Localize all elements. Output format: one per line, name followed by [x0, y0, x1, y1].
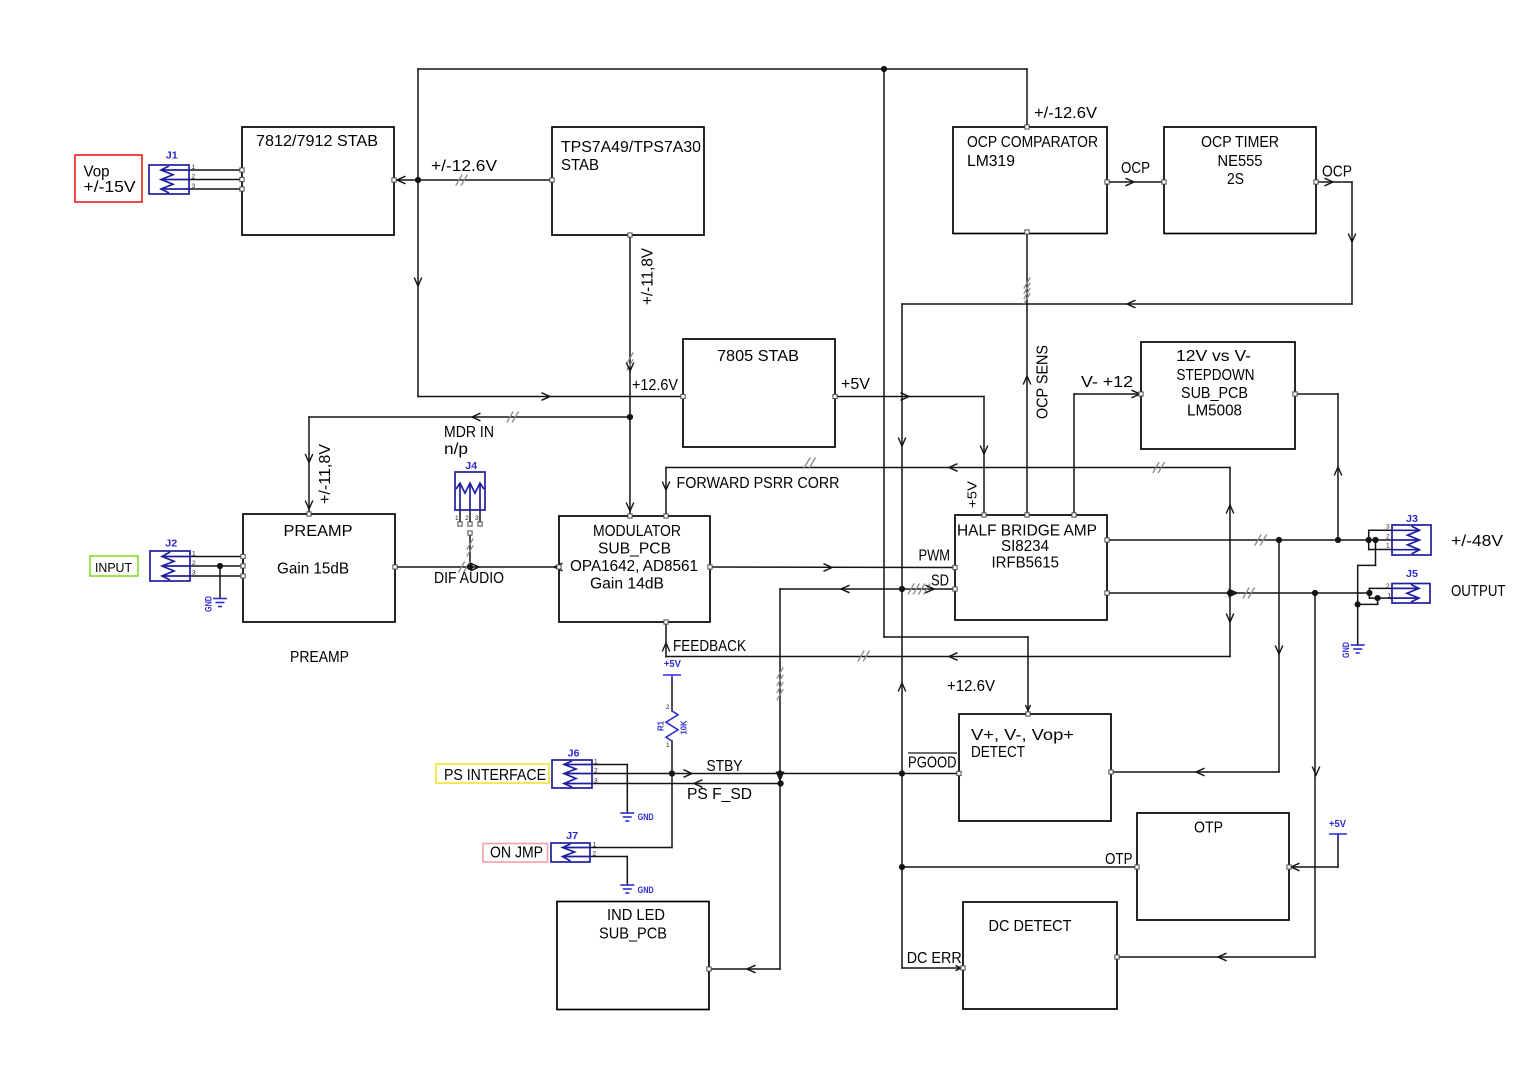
svg-text:MODULATOR: MODULATOR [593, 523, 681, 540]
svg-text:+/-15V: +/-15V [84, 179, 137, 196]
svg-text:INPUT: INPUT [95, 560, 132, 575]
svg-text:OPA1642, AD8561: OPA1642, AD8561 [570, 558, 698, 575]
svg-text:R1: R1 [657, 720, 666, 731]
svg-text:12V vs V-: 12V vs V- [1176, 348, 1251, 365]
svg-text:OCP: OCP [1121, 160, 1150, 177]
svg-text:+5V: +5V [1329, 819, 1346, 830]
svg-text:2: 2 [465, 515, 469, 522]
svg-text:1: 1 [455, 515, 459, 522]
svg-text:DETECT: DETECT [971, 744, 1025, 761]
svg-text:2: 2 [1386, 583, 1390, 590]
svg-text:+/-48V: +/-48V [1451, 533, 1504, 550]
svg-text:MDR IN: MDR IN [444, 424, 494, 441]
svg-text:+5V: +5V [965, 481, 980, 508]
svg-text:V+, V-, Vop+: V+, V-, Vop+ [971, 727, 1074, 744]
svg-text:LM319: LM319 [967, 153, 1015, 170]
svg-text:+/-11,8V: +/-11,8V [317, 444, 334, 504]
svg-text:1: 1 [1388, 592, 1392, 599]
svg-text:J4: J4 [465, 461, 477, 472]
svg-text:OTP: OTP [1105, 851, 1133, 868]
svg-text:GND: GND [638, 885, 654, 895]
svg-text:+/-12.6V: +/-12.6V [1034, 105, 1097, 122]
svg-text:SUB_PCB: SUB_PCB [598, 541, 671, 558]
svg-text:PREAMP: PREAMP [290, 649, 349, 666]
svg-text:2S: 2S [1227, 171, 1244, 188]
svg-text:Gain 14dB: Gain 14dB [590, 576, 664, 593]
svg-text:7805 STAB: 7805 STAB [717, 348, 799, 365]
svg-text:V- +12: V- +12 [1081, 374, 1133, 391]
svg-text:2: 2 [192, 174, 196, 181]
svg-text:LM5008: LM5008 [1187, 403, 1242, 420]
svg-text:TPS7A49/TPS7A30: TPS7A49/TPS7A30 [561, 139, 701, 156]
svg-text:STBY: STBY [707, 758, 743, 775]
svg-text:SD: SD [931, 573, 949, 590]
svg-text:ON JMP: ON JMP [490, 845, 543, 862]
svg-text:1: 1 [594, 759, 598, 766]
svg-text:+5V: +5V [841, 376, 870, 393]
svg-text:OCP: OCP [1322, 164, 1352, 181]
svg-text:J2: J2 [165, 539, 177, 550]
svg-text:GND: GND [204, 596, 214, 612]
svg-text:2: 2 [593, 851, 597, 858]
svg-text:FEEDBACK: FEEDBACK [673, 638, 746, 655]
svg-text:2: 2 [192, 560, 196, 567]
svg-text:PS F_SD: PS F_SD [687, 786, 752, 803]
svg-text:STAB: STAB [561, 157, 599, 174]
svg-text:J3: J3 [1406, 514, 1418, 525]
svg-text:SI8234: SI8234 [1001, 538, 1049, 555]
svg-text:SUB_PCB: SUB_PCB [1181, 385, 1248, 402]
svg-text:PGOOD: PGOOD [908, 755, 957, 772]
svg-text:DC DETECT: DC DETECT [989, 918, 1072, 935]
svg-text:PREAMP: PREAMP [284, 523, 353, 540]
svg-text:1: 1 [192, 164, 196, 171]
svg-text:3: 3 [192, 570, 196, 577]
svg-text:IRFB5615: IRFB5615 [992, 555, 1060, 572]
svg-text:GND: GND [1341, 642, 1351, 658]
svg-text:FORWARD PSRR CORR: FORWARD PSRR CORR [677, 475, 840, 492]
svg-text:HALF BRIDGE AMP: HALF BRIDGE AMP [957, 523, 1097, 540]
svg-text:+/-11,8V: +/-11,8V [640, 248, 657, 305]
svg-text:+/-12.6V: +/-12.6V [431, 158, 498, 175]
svg-text:J6: J6 [568, 748, 580, 759]
svg-text:n/p: n/p [444, 441, 468, 458]
svg-text:GND: GND [638, 812, 654, 822]
svg-text:3: 3 [192, 183, 196, 190]
svg-text:OUTPUT: OUTPUT [1451, 583, 1506, 600]
svg-text:2: 2 [1386, 533, 1390, 540]
svg-text:NE555: NE555 [1218, 153, 1263, 170]
svg-text:1: 1 [666, 742, 670, 749]
svg-text:+12.6V: +12.6V [632, 377, 678, 394]
svg-text:OCP SENS: OCP SENS [1035, 345, 1052, 419]
svg-text:7812/7912 STAB: 7812/7912 STAB [256, 133, 378, 150]
svg-text:10K: 10K [680, 720, 689, 734]
svg-text:J1: J1 [166, 151, 178, 162]
svg-text:3: 3 [1386, 524, 1390, 531]
svg-text:+12.6V: +12.6V [947, 678, 995, 695]
svg-text:3: 3 [475, 515, 479, 522]
svg-text:2: 2 [666, 704, 670, 711]
svg-text:3: 3 [594, 778, 598, 785]
svg-text:PWM: PWM [919, 548, 951, 565]
svg-text:OCP COMPARATOR: OCP COMPARATOR [967, 134, 1098, 151]
svg-text:J5: J5 [1406, 569, 1418, 580]
svg-text:OCP TIMER: OCP TIMER [1201, 134, 1279, 151]
svg-text:IND LED: IND LED [607, 907, 665, 924]
svg-text:PS INTERFACE: PS INTERFACE [444, 767, 546, 784]
svg-text:Vop: Vop [84, 164, 110, 181]
svg-text:J7: J7 [566, 831, 578, 842]
svg-text:DC ERR: DC ERR [907, 950, 962, 967]
svg-text:1: 1 [1386, 542, 1390, 549]
svg-text:SUB_PCB: SUB_PCB [599, 926, 667, 943]
svg-text:OTP: OTP [1194, 820, 1223, 837]
svg-text:1: 1 [593, 842, 597, 849]
svg-text:STEPDOWN: STEPDOWN [1177, 367, 1255, 384]
svg-text:1: 1 [192, 551, 196, 558]
svg-text:DIF AUDIO: DIF AUDIO [434, 570, 504, 587]
svg-text:2: 2 [594, 768, 598, 775]
svg-text:Gain 15dB: Gain 15dB [277, 561, 349, 578]
svg-text:+5V: +5V [664, 659, 681, 670]
